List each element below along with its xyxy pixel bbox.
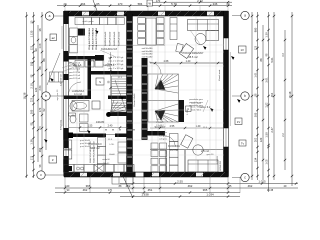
washbasin left unit: [70, 102, 77, 111]
svg-text:PRALKA ZMYWARKA: PRALKA ZMYWARKA: [88, 28, 91, 50]
svg-text:Komin 14x14: Komin 14x14: [134, 93, 136, 107]
svg-text:- pos 12.5 x4: - pos 12.5 x4: [68, 66, 81, 68]
svg-text:262: 262: [255, 137, 258, 142]
svg-text:90: 90: [34, 48, 38, 51]
grid bubble b: [42, 92, 64, 100]
annotation microtext: [57, 20, 230, 165]
section flag 3: [203, 46, 206, 50]
svg-text:1.034: 1.034: [206, 192, 214, 196]
svg-text:170: 170: [118, 2, 123, 6]
label box stair right: [186, 106, 192, 112]
wall left-unit vertical: [88, 59, 92, 99]
wardrobe strip left unit: [118, 142, 127, 163]
svg-text:5.76: 5.76: [171, 2, 177, 6]
svg-text:a: a: [49, 14, 51, 18]
svg-text:125: 125: [31, 45, 34, 50]
inplan dim living right unit: [150, 60, 223, 64]
svg-text:gres 30x30: gres 30x30: [80, 140, 91, 142]
stairs right unit: [148, 74, 179, 122]
svg-text:125: 125: [255, 45, 258, 50]
svg-text:SZAFKA 60x60: SZAFKA 60x60: [104, 31, 107, 46]
svg-text:88: 88: [42, 58, 46, 61]
entrance steps left: [50, 72, 64, 82]
toilet left unit: [70, 115, 76, 123]
svg-text:1.40: 1.40: [196, 125, 201, 128]
svg-text:90/220 O1: 90/220 O1: [61, 119, 63, 130]
wall left-unit kitchen: [64, 133, 127, 139]
svg-text:175: 175: [31, 155, 34, 160]
room labels: [72, 47, 211, 153]
column blob left unit: [106, 112, 111, 117]
svg-text:170: 170: [156, 0, 161, 3]
svg-text:1.50: 1.50: [265, 132, 269, 138]
kitchen strip bottom right unit: [170, 134, 179, 174]
svg-text:poz. 2 x 12.5 gk: poz. 2 x 12.5 gk: [109, 57, 125, 59]
svg-text:2.55: 2.55: [177, 180, 183, 184]
svg-text:LOD.: LOD.: [110, 144, 115, 146]
svg-text:1V: 1V: [240, 48, 244, 52]
svg-text:2.2: 2.2: [282, 133, 285, 137]
svg-text:2.5: 2.5: [39, 126, 42, 130]
svg-text:wys. par. 90: wys. par. 90: [57, 89, 59, 101]
radiator strip right unit: [170, 18, 177, 40]
svg-text:gres 30: gres 30: [207, 154, 215, 156]
svg-text:584: 584: [138, 2, 143, 6]
dimension chain right: [251, 12, 293, 192]
svg-text:szafki gorne: szafki gorne: [82, 20, 94, 23]
svg-text:17x18.2: 17x18.2: [156, 125, 164, 127]
svg-text:14.2 / 25.5: 14.2 / 25.5: [191, 103, 202, 105]
sofa right unit: [188, 20, 219, 41]
svg-text:52: 52: [42, 108, 46, 111]
laundry boxes left unit: [80, 114, 89, 132]
svg-text:3.01: 3.01: [265, 77, 269, 83]
section flag 8: [120, 96, 123, 100]
label box left a2: [50, 34, 57, 41]
svg-text:28.5 m2: 28.5 m2: [188, 55, 198, 59]
svg-text:- pos 12.5 x4: - pos 12.5 x4: [68, 75, 81, 77]
svg-text:t.20 gres: t.20 gres: [159, 138, 167, 141]
svg-text:364: 364: [81, 2, 86, 6]
projection lines: [68, 16, 224, 172]
svg-text:1.30: 1.30: [265, 32, 269, 38]
svg-text:134: 134: [254, 157, 258, 162]
svg-text:BLAT KUCHENNY 60: BLAT KUCHENNY 60: [93, 141, 96, 163]
svg-text:2.72: 2.72: [197, 0, 203, 3]
section flag 1: [50, 78, 53, 82]
stairs left unit: [110, 76, 127, 113]
svg-text:17x18.2: 17x18.2: [156, 122, 164, 124]
svg-text:gres 30x30: gres 30x30: [80, 143, 91, 145]
svg-text:2.5 m2: 2.5 m2: [201, 149, 209, 153]
svg-text:140: 140: [65, 184, 70, 188]
svg-text:- pos 12.5 x4: - pos 12.5 x4: [68, 63, 81, 65]
dimension chain top: [57, 0, 232, 11]
svg-text:gres 30x30: gres 30x30: [80, 146, 91, 148]
stove left unit: [78, 29, 85, 36]
kitchen cabinets top left unit: [75, 18, 124, 25]
svg-text:KUCHNIA 9.8: KUCHNIA 9.8: [101, 47, 117, 51]
grid bubble c: [37, 171, 64, 179]
svg-text:3.64: 3.64: [39, 85, 42, 90]
svg-text:2.55: 2.55: [170, 125, 175, 128]
section flag right mid: [237, 99, 240, 103]
svg-text:105: 105: [30, 61, 34, 66]
wall right-unit stair side: [179, 100, 185, 122]
wall right-unit divider 2: [184, 150, 186, 172]
sofa bottom right unit: [188, 160, 222, 172]
svg-text:poz. 2 x 12.5 gk: poz. 2 x 12.5 gk: [109, 64, 125, 66]
svg-text:1.638: 1.638: [141, 192, 149, 196]
svg-text:9.2 m2: 9.2 m2: [170, 148, 178, 152]
dining chairs bottom right unit: [151, 143, 167, 172]
section line bottom: [121, 172, 133, 198]
label box left bottom: [49, 156, 57, 163]
inplan dim line left unit: [69, 125, 128, 129]
svg-text:1V: 1V: [237, 120, 241, 124]
grid bubble c: [232, 173, 249, 181]
svg-text:225: 225: [31, 97, 34, 102]
wall top exterior: [64, 11, 229, 16]
svg-text:1.36: 1.36: [30, 139, 34, 145]
svg-text:PRALKA ZMYWARKA: PRALKA ZMYWARKA: [92, 28, 95, 50]
svg-text:posadzka gres: posadzka gres: [189, 98, 203, 101]
svg-text:240/220: 240/220: [217, 155, 219, 163]
svg-text:szafa 60: szafa 60: [102, 159, 110, 161]
wall right-unit stub: [148, 131, 166, 136]
dining table and chairs right unit: [138, 18, 164, 46]
svg-text:2.40: 2.40: [108, 125, 113, 128]
label box top edge: [147, 0, 153, 6]
svg-text:4.1 m2: 4.1 m2: [74, 92, 82, 96]
svg-text:140/220 O2: 140/220 O2: [61, 74, 63, 86]
svg-text:t.20 gres: t.20 gres: [159, 134, 167, 137]
svg-text:262: 262: [38, 147, 42, 152]
svg-text:16.38: 16.38: [288, 91, 292, 98]
svg-text:SZAFKA 60x60: SZAFKA 60x60: [118, 31, 121, 46]
kitchen counter bottom left unit: [64, 165, 134, 173]
svg-text:1.135: 1.135: [30, 30, 34, 37]
svg-text:1.345: 1.345: [187, 108, 189, 114]
svg-text:1.08: 1.08: [266, 159, 269, 164]
svg-text:- pos 12.5 x4: - pos 12.5 x4: [68, 78, 81, 80]
svg-text:120: 120: [259, 137, 263, 142]
wc fixtures row: [75, 61, 103, 68]
wall bottom exterior: [64, 172, 229, 177]
wall right-unit divider 1: [165, 150, 167, 172]
svg-text:2.10: 2.10: [30, 83, 34, 89]
svg-text:3.3: 3.3: [282, 53, 285, 57]
inplan dim line right unit: [150, 125, 223, 129]
wall right exterior: [224, 11, 229, 177]
coffee table right unit: [195, 34, 206, 45]
wall left-unit hall bottom: [64, 96, 127, 100]
svg-text:1.025: 1.025: [258, 180, 266, 184]
svg-text:b: b: [45, 94, 47, 98]
wall left-unit wc top: [64, 55, 104, 61]
label box right top: [239, 46, 247, 53]
armchair rotated living right unit: [179, 44, 193, 59]
svg-text:t.20 gres: t.20 gres: [159, 131, 167, 134]
door arc hall right unit: [149, 62, 161, 74]
svg-text:a: a: [244, 14, 246, 18]
svg-text:305: 305: [254, 112, 258, 117]
section flag 4: [210, 108, 213, 112]
table bottom right unit: [193, 145, 203, 155]
section line top: [93, 0, 99, 16]
svg-text:stol 90x180: stol 90x180: [142, 53, 153, 56]
svg-text:poz. 2 x 12.5 gk: poz. 2 x 12.5 gk: [109, 61, 125, 63]
section flag 7: [231, 56, 234, 60]
svg-text:462: 462: [188, 184, 193, 188]
svg-text:16.38: 16.38: [267, 189, 274, 192]
grid bubble a: [232, 11, 249, 19]
svg-text:14.2 / 25.5: 14.2 / 25.5: [191, 110, 202, 112]
section flag 2: [95, 30, 98, 34]
porch bottom: [112, 177, 133, 184]
kitchen counter left wall: [70, 28, 78, 53]
svg-text:17x18.2: 17x18.2: [156, 119, 164, 121]
grid bubble b: [232, 92, 249, 100]
svg-text:stol 90x180: stol 90x180: [142, 50, 153, 53]
label box right mid: [235, 118, 242, 125]
entrance canopy diagonal left: [47, 53, 60, 85]
svg-text:1.55: 1.55: [88, 125, 93, 128]
section flag 6: [44, 139, 47, 143]
svg-text:stol 90x180: stol 90x180: [142, 47, 153, 50]
svg-text:462: 462: [248, 184, 253, 188]
door arc kitchen right: [165, 136, 175, 146]
dimension chain bottom: [55, 177, 298, 198]
svg-text:SOFA 200: SOFA 200: [219, 160, 222, 171]
wall left-unit stair top: [91, 71, 127, 75]
svg-text:305: 305: [30, 109, 34, 114]
svg-text:246: 246: [213, 2, 218, 6]
washer left unit: [92, 101, 100, 109]
label box left wc: [96, 78, 104, 85]
svg-text:stol 90x180: stol 90x180: [142, 55, 153, 58]
svg-text:2.47: 2.47: [270, 127, 274, 133]
svg-text:240x60: 240x60: [103, 163, 110, 165]
wall left-unit stub: [108, 112, 127, 116]
kitchen boxes left wall: [64, 140, 72, 159]
wall stair right unit: [142, 58, 148, 140]
grid bubble a: [45, 12, 64, 20]
svg-text:KUCHNIA: KUCHNIA: [168, 144, 180, 148]
svg-text:b: b: [244, 94, 246, 98]
svg-text:Z: Z: [52, 158, 54, 162]
svg-text:36: 36: [38, 28, 42, 31]
svg-text:1.01: 1.01: [254, 72, 258, 78]
svg-text:16.38: 16.38: [23, 92, 27, 99]
wall left exterior: [64, 11, 69, 177]
svg-text:- pos 12.5 x4: - pos 12.5 x4: [68, 72, 81, 74]
svg-text:14.2 / 25.5: 14.2 / 25.5: [191, 106, 202, 108]
svg-text:SZAFKA 60x60: SZAFKA 60x60: [109, 31, 112, 46]
armchair2 living right unit: [176, 43, 184, 52]
svg-text:2.68: 2.68: [164, 60, 169, 63]
svg-text:a2: a2: [52, 36, 56, 40]
svg-text:2.62: 2.62: [266, 102, 269, 107]
svg-text:980: 980: [254, 27, 258, 32]
svg-text:SZAFKA 60x60: SZAFKA 60x60: [113, 31, 116, 46]
svg-text:140x80: 140x80: [96, 120, 105, 124]
floor boundary line: [90, 45, 165, 47]
door arc wc: [69, 62, 79, 72]
door arc left entrance: [69, 82, 82, 95]
kitchen counter strip left unit: [98, 138, 106, 173]
armchair rotated right unit: [181, 135, 193, 148]
svg-text:poz. 2 x 12.5 gk: poz. 2 x 12.5 gk: [109, 68, 125, 70]
svg-text:120: 120: [34, 87, 38, 92]
svg-text:5.01: 5.01: [270, 57, 274, 63]
wall bottom rooms right unit: [150, 149, 223, 151]
svg-text:- pos 12.5 x4: - pos 12.5 x4: [68, 69, 81, 71]
svg-text:88: 88: [38, 66, 42, 69]
svg-text:Kanal went.: Kanal went.: [218, 69, 221, 81]
svg-text:170: 170: [108, 189, 113, 192]
svg-text:1.40: 1.40: [186, 60, 191, 63]
section flag 5: [87, 130, 90, 134]
svg-text:88: 88: [259, 58, 263, 61]
svg-text:POKOJ DZIENNY: POKOJ DZIENNY: [183, 51, 204, 55]
label box right mid2: [239, 140, 246, 146]
dimension chain left: [23, 12, 48, 178]
wall party: [127, 14, 133, 172]
svg-text:PRALKA ZMYWARKA: PRALKA ZMYWARKA: [95, 28, 98, 50]
svg-text:462: 462: [83, 188, 88, 192]
svg-text:60x60: 60x60: [109, 154, 115, 156]
svg-text:264: 264: [271, 92, 274, 97]
bathtub left unit: [72, 101, 89, 112]
svg-text:170: 170: [38, 107, 42, 112]
svg-text:1.08: 1.08: [39, 43, 42, 48]
inplan vdim left unit: [109, 52, 112, 96]
svg-text:S: S: [99, 80, 101, 84]
